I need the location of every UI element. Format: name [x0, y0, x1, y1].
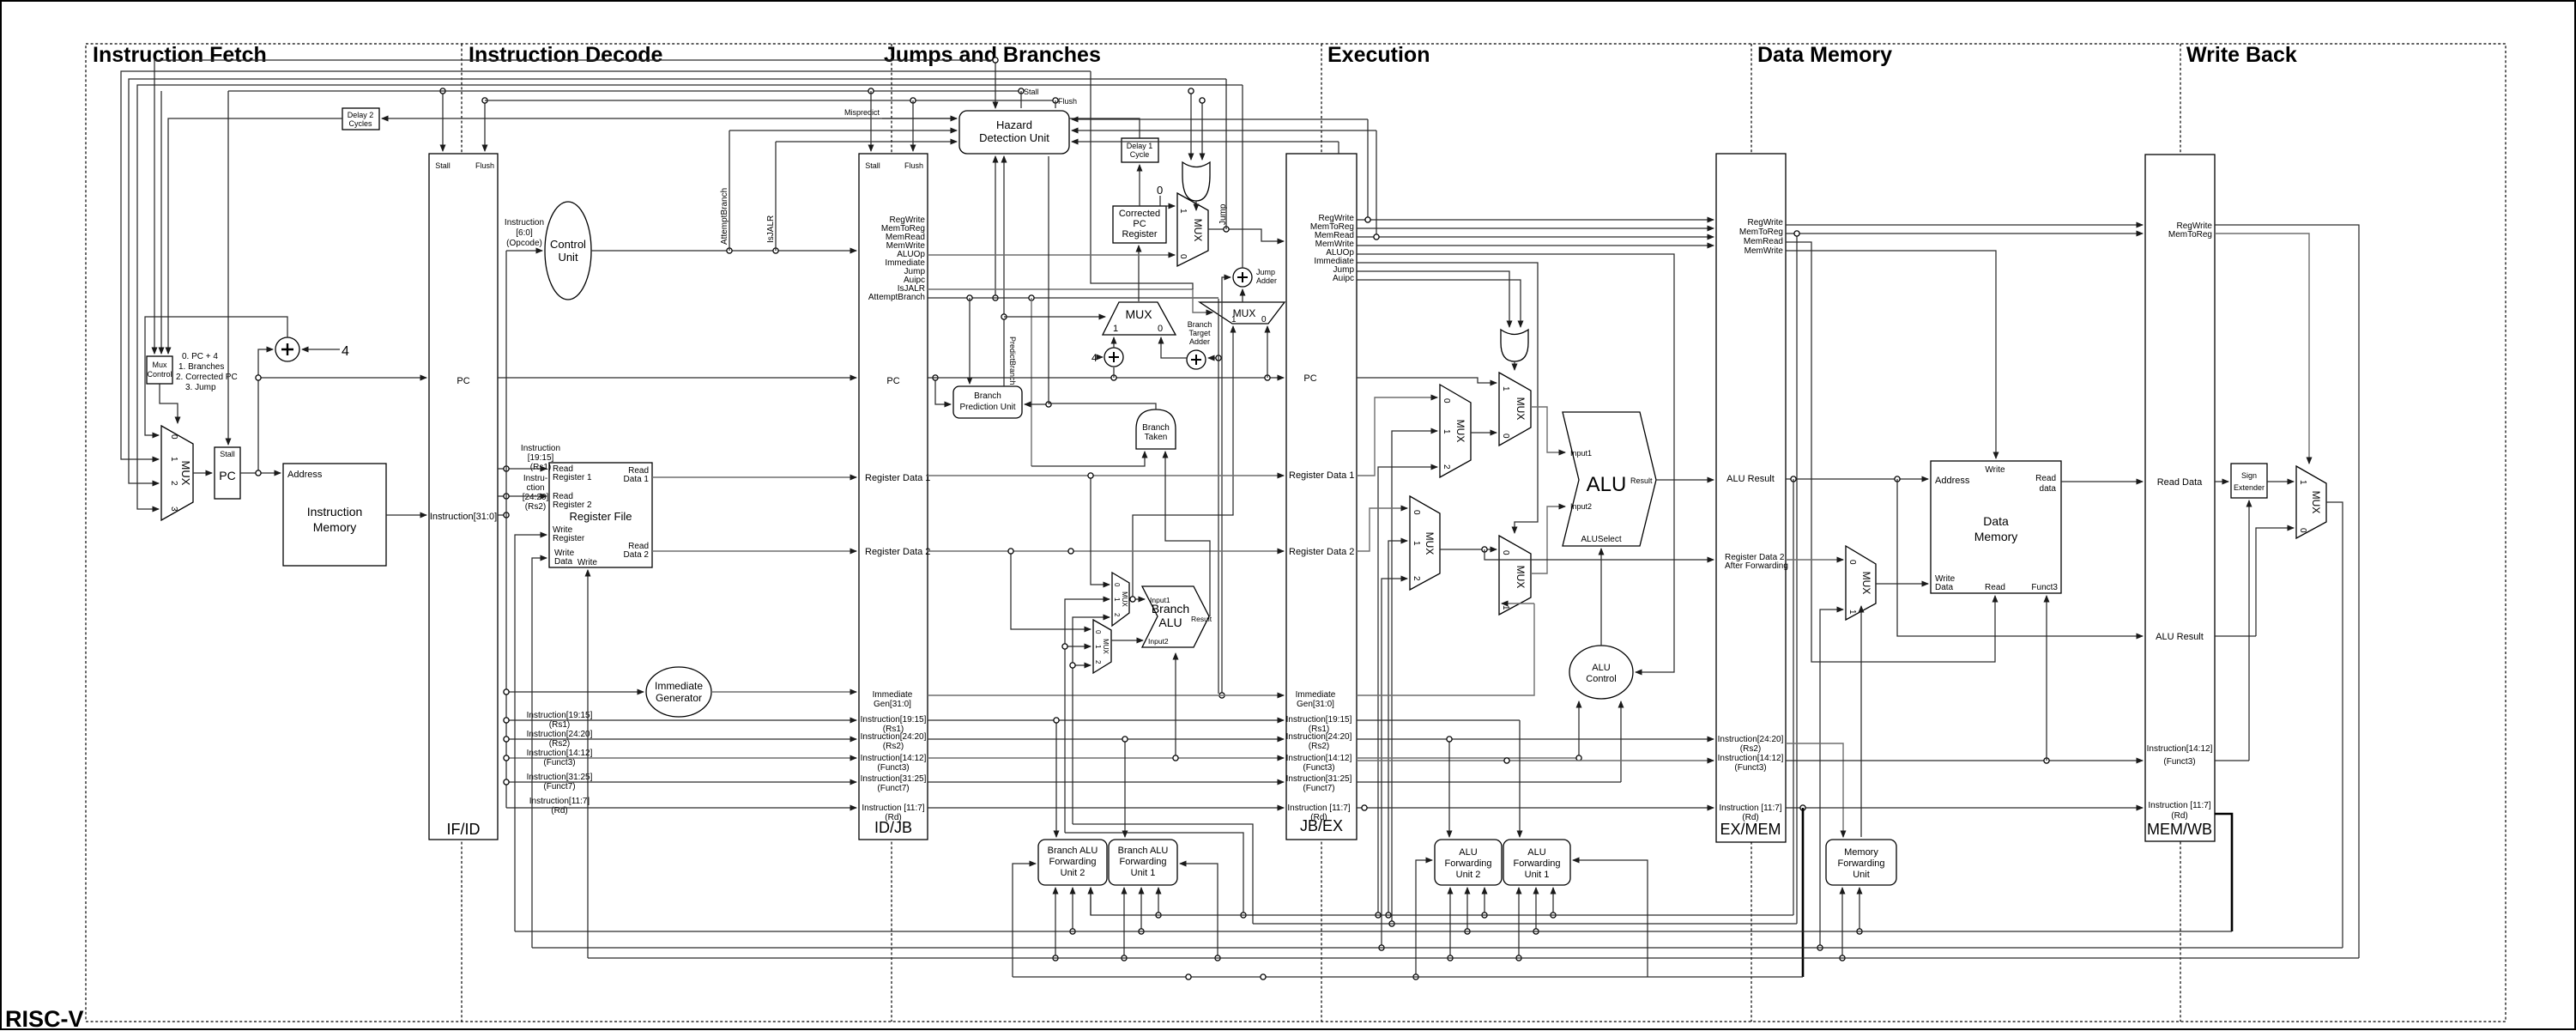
svg-text:Control: Control: [1586, 674, 1616, 684]
delay 2 cycles box: [342, 108, 379, 130]
wire regdata2 to mux M9 input0: [1357, 508, 1407, 551]
wire funct3 from EX/MEM to MEM/WB and data memory: [1786, 760, 2143, 761]
svg-text:Input1: Input1: [1570, 449, 1592, 458]
wire mux M8 input1 from bus: [1392, 431, 1437, 924]
section divider Execution: [1321, 44, 1322, 1022]
wire M5 input2 from forwarding: [1073, 617, 1110, 824]
mux control MC1: [147, 356, 172, 384]
svg-text:Instruction Decode: Instruction Decode: [469, 43, 663, 67]
svg-text:0: 0: [1442, 398, 1451, 403]
branch alu forwarding unit 1: [1109, 840, 1177, 885]
wire jump mux to jump adder: [1242, 289, 1243, 302]
svg-text:ction: ction: [526, 483, 544, 493]
svg-text:Forwarding: Forwarding: [1513, 858, 1560, 869]
svg-text:PC: PC: [1133, 219, 1146, 229]
svg-text:Unit 1: Unit 1: [1131, 868, 1156, 878]
svg-text:Stall: Stall: [220, 450, 235, 458]
wire delay2 output to mux control: [168, 118, 342, 354]
svg-text:MUX: MUX: [1192, 219, 1204, 242]
svg-text:Data Memory: Data Memory: [1757, 43, 1892, 67]
wire memtoreg down to mux select: [2215, 233, 2309, 464]
wire instruction31:0 node: [498, 514, 506, 516]
adder PC+4: [275, 337, 349, 361]
wire isjalr row from ID/JB to jump mux select: [928, 289, 1212, 312]
wire ID/JB PC to JB/EX PC: [928, 377, 1284, 379]
svg-text:0: 0: [1501, 434, 1510, 439]
svg-text:Instruction[19:15]: Instruction[19:15]: [1286, 715, 1352, 725]
wire branches y83 to mux input1: [121, 71, 1091, 459]
svg-text:Instruction [11:7]: Instruction [11:7]: [862, 804, 924, 813]
wire alu fwd unit selects: [1448, 739, 1450, 837]
svg-text:Instruction[11:7]: Instruction[11:7]: [529, 797, 590, 806]
svg-text:Instruction[14:12]: Instruction[14:12]: [527, 749, 593, 758]
svg-text:Read: Read: [2035, 474, 2056, 483]
svg-text:4: 4: [342, 344, 349, 359]
svg-text:ALU: ALU: [1527, 847, 1545, 858]
svg-text:Detection Unit: Detection Unit: [979, 131, 1049, 144]
wire delay1 to mispredict: [1069, 118, 1140, 138]
svg-text:0: 0: [1261, 315, 1267, 324]
wire regwrite into register file bottom: [587, 570, 589, 958]
wire rs1 data tap to branch mux M5 input0: [1091, 476, 1110, 585]
svg-text:Unit 2: Unit 2: [1061, 868, 1085, 878]
svg-text:AttemptBranch: AttemptBranch: [868, 293, 925, 302]
wire ID/JB regdata2 to JB/EX: [928, 550, 1284, 552]
svg-text:Data 2: Data 2: [624, 550, 650, 560]
svg-text:Register Data 1: Register Data 1: [1289, 470, 1354, 481]
wire flush into ID/JB: [912, 100, 914, 151]
wire branch target adder input from rs1 bus: [1208, 357, 1218, 359]
svg-text:Mux: Mux: [152, 361, 167, 369]
svg-text:PC: PC: [219, 469, 235, 482]
wire register file read data1 to ID/JB: [652, 476, 856, 478]
wire alu fwd unit2 left input: [1416, 860, 1432, 977]
svg-text:2: 2: [1094, 660, 1102, 664]
sign extender: [2231, 464, 2267, 498]
mux M2 corrected pc: [1177, 193, 1208, 266]
svg-text:Delay 1: Delay 1: [1127, 142, 1153, 150]
svg-text:(Funct3): (Funct3): [1734, 763, 1766, 773]
svg-text:Unit: Unit: [1853, 870, 1870, 880]
svg-text:0: 0: [169, 434, 178, 440]
wire read data to MEM/WB: [2061, 481, 2143, 482]
svg-text:3. Jump: 3. Jump: [185, 383, 216, 392]
wire pc to +4 adder: [1113, 367, 1115, 378]
wire imm gen output to ID/JB: [711, 691, 856, 693]
wire mux M8 input2 from bus: [1378, 467, 1437, 915]
delay 1 cycle box: [1122, 138, 1158, 162]
wire mux M9 out to mux M10 input0: [1440, 549, 1497, 550]
svg-text:(Rd): (Rd): [1742, 813, 1758, 822]
svg-text:Unit 1: Unit 1: [1525, 870, 1550, 880]
wire control rows JB/EX to EX/MEM: [1357, 219, 1714, 221]
svg-text:MUX: MUX: [1424, 532, 1436, 555]
svg-text:Cycle: Cycle: [1130, 150, 1150, 159]
mux control legend text: [176, 352, 238, 392]
wire mux M9 out to EX/MEM regdata2 after fwd: [1485, 549, 1714, 560]
wire top line y70 to mux control: [154, 60, 995, 354]
svg-text:Stall: Stall: [865, 161, 880, 170]
svg-text:data: data: [2040, 484, 2057, 494]
svg-text:Branch: Branch: [974, 391, 1001, 401]
svg-text:MemRead: MemRead: [1744, 237, 1783, 246]
svg-text:1: 1: [1094, 645, 1102, 649]
section divider Decode: [461, 44, 463, 1022]
wire M6 input1: [1065, 646, 1091, 647]
svg-text:Branch: Branch: [1188, 320, 1212, 329]
wire PC+4 loop top: [145, 317, 287, 435]
svg-text:Register Data 2: Register Data 2: [865, 547, 930, 557]
wire mux M2 output jump node: [1208, 229, 1284, 241]
wire write register from bottom bus: [515, 535, 547, 931]
svg-text:(Rs2): (Rs2): [1740, 744, 1761, 754]
wire mux M8 out to mux M7 input0: [1471, 432, 1497, 434]
svg-text:Stall: Stall: [435, 161, 450, 170]
svg-text:(Rd): (Rd): [2171, 811, 2187, 821]
wire alu result branch down to MEM/WB alu result: [1897, 479, 2143, 636]
wire stall line: [228, 90, 1021, 92]
svg-text:Branch ALU: Branch ALU: [1118, 846, 1169, 856]
svg-text:Delay 2: Delay 2: [348, 111, 374, 119]
svg-text:1: 1: [1412, 541, 1421, 546]
wire Auipc to or gate: [1357, 280, 1521, 327]
svg-text:Input2: Input2: [1570, 502, 1592, 511]
wire alu fwd unit1 right input: [1573, 860, 1648, 977]
section divider Jumps: [891, 44, 892, 1022]
mux M6 branch alu input2: [1093, 620, 1111, 673]
svg-text:Instruction Fetch: Instruction Fetch: [93, 43, 267, 67]
wire M5 input1 from forwarding: [1065, 599, 1110, 833]
wire branch taken feedback to bpu right: [1025, 403, 1049, 405]
wire mux M11 out to write data: [1876, 583, 1928, 585]
svg-text:Prediction Unit: Prediction Unit: [959, 403, 1015, 412]
section divider Data Memory: [1751, 44, 1752, 1022]
wire M6 input2: [1073, 664, 1091, 666]
wire memread to data memory read: [1786, 242, 1995, 662]
wire alu fwd unit1 bottom inputs: [1518, 888, 1520, 958]
wire wb data to mux M11 input1: [1820, 610, 1843, 948]
bus wb regwrite y1116: [588, 957, 2359, 959]
wire jump vertical up to y92: [1225, 79, 1227, 229]
wire mux M9 input2 from bus: [1382, 579, 1407, 948]
svg-text:Forwarding: Forwarding: [1049, 857, 1096, 867]
wire ID/JB rs2 to JB/EX: [928, 738, 1284, 740]
svg-text:Forwarding: Forwarding: [1837, 858, 1884, 869]
wire corrected pc register to delay1: [1139, 165, 1140, 206]
svg-text:Register 2: Register 2: [553, 500, 592, 510]
svg-text:Register File: Register File: [570, 510, 632, 523]
svg-text:Instruction [11:7]: Instruction [11:7]: [1287, 804, 1350, 813]
wire constant 0 to mux M2 input1: [1160, 196, 1175, 206]
svg-text:Instru-: Instru-: [523, 474, 547, 483]
wire flush line: [485, 100, 1055, 101]
svg-text:1: 1: [2298, 480, 2307, 485]
bus exmem rd y1138: [1013, 976, 1803, 978]
svg-text:ALU: ALU: [1587, 473, 1627, 496]
wire funct7 row: [506, 781, 856, 783]
svg-text:RISC-V: RISC-V: [5, 1006, 84, 1031]
svg-text:Result: Result: [1191, 615, 1212, 623]
svg-text:Generator: Generator: [656, 692, 702, 704]
svg-text:Jump: Jump: [1256, 268, 1275, 276]
wire flush into IF/ID: [484, 100, 486, 151]
wire rs2 row: [506, 738, 856, 740]
svg-text:Auipc: Auipc: [1333, 274, 1354, 283]
wire 4 into adder: [302, 349, 340, 350]
svg-text:(Opcode): (Opcode): [506, 239, 542, 248]
wire alu result to address: [1786, 478, 1928, 480]
svg-text:Control: Control: [147, 370, 172, 379]
svg-text:1: 1: [1178, 209, 1188, 214]
wire attemptbranch drop to branch taken: [1031, 298, 1032, 466]
svg-text:Mispredict: Mispredict: [844, 108, 880, 117]
alu forwarding unit 1: [1503, 840, 1570, 885]
alu control: [1569, 646, 1633, 699]
wire memory fwd unit bottom inputs: [1841, 888, 1843, 958]
wire stall to PC reg: [227, 91, 229, 445]
svg-text:MUX: MUX: [1515, 566, 1527, 589]
wire rd row: [506, 807, 856, 809]
svg-text:Instruction[14:12]: Instruction[14:12]: [1718, 754, 1784, 763]
svg-text:IsJALR: IsJALR: [766, 215, 776, 243]
svg-text:0: 0: [1501, 550, 1510, 555]
wire M5 output to branch alu input1: [1129, 598, 1145, 600]
wire rd down to bus thick: [1802, 808, 1805, 977]
svg-text:Register: Register: [1122, 229, 1158, 240]
wire stall line into mux control: [160, 91, 162, 354]
svg-text:1: 1: [1501, 605, 1510, 610]
svg-text:(Rd): (Rd): [885, 813, 901, 822]
svg-text:Unit 2: Unit 2: [1456, 870, 1481, 880]
svg-text:Address: Address: [1935, 476, 1970, 486]
svg-text:Instruction [11:7]: Instruction [11:7]: [2148, 801, 2210, 810]
svg-text:(Rs2): (Rs2): [525, 502, 546, 512]
wire control unit output to ID/JB: [591, 250, 856, 252]
alu forwarding unit 2: [1435, 840, 1502, 885]
wire attemptbranch to HDU: [729, 130, 957, 131]
svg-text:Unit: Unit: [558, 251, 578, 264]
svg-text:MEM/WB: MEM/WB: [2147, 821, 2212, 838]
wire rs1 rs2 rd rows to EX/MEM: [1357, 719, 1520, 721]
wire ID/JB immgen to JB/EX: [928, 694, 1284, 696]
wire mux M3 output to corrected pc register: [1138, 246, 1140, 301]
svg-text:0: 0: [1847, 560, 1857, 565]
svg-text:Data: Data: [1935, 583, 1954, 592]
wire PC to mux M7 input1: [1357, 378, 1497, 383]
branch target adder: [1187, 320, 1212, 369]
mux M10 alu input2 select: [1499, 536, 1531, 615]
wire isjalr up: [775, 142, 777, 251]
svg-text:Forwarding: Forwarding: [1444, 858, 1491, 869]
svg-text:PC: PC: [1303, 373, 1316, 384]
bus wb data y1104: [532, 947, 2343, 949]
wire alu result to mux input0: [2215, 635, 2256, 637]
svg-text:Immediate: Immediate: [1296, 690, 1336, 700]
wire rs1 row down to branch fwd unit2: [1055, 720, 1057, 837]
wire funct7 to alu control: [1357, 781, 1621, 783]
svg-text:0: 0: [1412, 510, 1421, 515]
svg-text:MUX: MUX: [1102, 639, 1110, 654]
wire ALUOp row to mux M2 input0: [928, 254, 1175, 256]
opcode label: [505, 218, 544, 248]
svg-text:0: 0: [1157, 184, 1163, 197]
wire or gate to mux M2 select: [1195, 201, 1197, 210]
wire imm gen input: [506, 691, 644, 693]
svg-text:1: 1: [1231, 315, 1237, 324]
wire alu fwd unit2 bottom inputs: [1449, 888, 1451, 958]
svg-text:MemToReg: MemToReg: [1739, 227, 1783, 237]
svg-text:0: 0: [1178, 254, 1188, 259]
or gate jump/auipc: [1501, 330, 1528, 361]
svg-text:MUX: MUX: [1121, 591, 1128, 607]
svg-text:Memory: Memory: [1844, 847, 1878, 858]
wire register file read data2 to ID/JB: [652, 550, 856, 552]
mux M1 (next PC select): [161, 426, 193, 520]
svg-text:2: 2: [169, 481, 178, 486]
svg-text:Read: Read: [1985, 583, 2005, 592]
svg-text:0: 0: [1113, 583, 1121, 587]
wire attemptbranch row from ID/JB: [928, 297, 1218, 299]
svg-text:Instruction: Instruction: [307, 505, 363, 519]
wire ID/JB rs1 to JB/EX: [928, 719, 1284, 721]
wire regdata2 after fwd to mux M11 input0: [1786, 559, 1843, 561]
wire bpu top from attemptbranch: [969, 298, 971, 384]
svg-text:Instruction: Instruction: [521, 444, 560, 453]
svg-text:(Rd): (Rd): [1310, 813, 1327, 822]
jump adder: [1233, 268, 1277, 287]
svg-text:[24:20]: [24:20]: [523, 493, 549, 502]
svg-text:Instruction[19:15]: Instruction[19:15]: [861, 715, 927, 725]
wire alu control to ALU select: [1600, 549, 1602, 646]
svg-text:Data: Data: [554, 557, 573, 567]
immediate generator: [646, 667, 711, 717]
wire M6 output to branch alu input2: [1111, 640, 1143, 641]
wire PC to instruction memory address: [240, 472, 281, 474]
svg-text:Immediate: Immediate: [655, 680, 703, 692]
svg-text:Instruction[24:20]: Instruction[24:20]: [527, 730, 593, 739]
junction PC node: [256, 470, 261, 476]
register file: [549, 463, 652, 567]
svg-text:4: 4: [1091, 352, 1098, 364]
svg-text:Instruction[31:0]: Instruction[31:0]: [430, 512, 497, 522]
wire rs2 row down to branch fwd unit1: [1124, 739, 1126, 837]
svg-text:Register Data 1: Register Data 1: [865, 473, 930, 483]
svg-text:Instruction[24:20]: Instruction[24:20]: [861, 732, 927, 742]
svg-text:Flush: Flush: [1058, 97, 1077, 106]
svg-text:1: 1: [1442, 429, 1451, 434]
svg-text:3: 3: [169, 506, 178, 512]
svg-text:[19:15]: [19:15]: [528, 453, 554, 463]
svg-text:(Funct3): (Funct3): [1303, 763, 1334, 773]
wire ID/JB regdata1 to JB/EX: [928, 475, 1284, 476]
svg-text:Instruction: Instruction: [505, 218, 544, 227]
wire rd out down thick: [2215, 814, 2232, 931]
mux M4 jump adder input: [1200, 302, 1285, 324]
wire corrected pc y92 to mux input2: [129, 79, 1226, 483]
svg-text:IF/ID: IF/ID: [447, 821, 481, 838]
wire immgen data to mux M10 input1: [1357, 603, 1534, 695]
svg-text:Branch ALU: Branch ALU: [1048, 846, 1098, 856]
branch taken gate: [1136, 409, 1176, 449]
svg-text:2: 2: [1113, 613, 1121, 617]
svg-text:1: 1: [1847, 610, 1857, 615]
vertical instruction bus: [505, 251, 507, 808]
svg-text:ALUSelect: ALUSelect: [1581, 535, 1621, 544]
wire ALUOp to alu control: [1357, 254, 1674, 672]
wire rs1 row: [506, 719, 856, 721]
wire branch taken output: [1049, 156, 1156, 409]
wire pc tap to bpu: [935, 378, 951, 404]
wire mux M1 out to PC: [193, 472, 212, 474]
wire mux control to mux select: [160, 384, 178, 423]
svg-text:Target: Target: [1188, 329, 1211, 337]
section divider Write Back: [2180, 44, 2181, 1022]
svg-text:Input2: Input2: [1148, 637, 1169, 646]
wire branch taken inputs: [1031, 452, 1145, 466]
svg-text:Result: Result: [1630, 476, 1653, 485]
wire branch fwd unit2 bottom inputs: [1055, 888, 1056, 958]
svg-text:0: 0: [1094, 630, 1102, 634]
wire Jump to or gate: [1357, 271, 1509, 327]
svg-text:Instruction [11:7]: Instruction [11:7]: [1719, 804, 1781, 813]
svg-text:Instruction[31:25]: Instruction[31:25]: [861, 774, 927, 784]
wire rs2 from EX/MEM to memory fwd unit: [1786, 743, 1843, 837]
svg-text:(Funct7): (Funct7): [877, 784, 909, 793]
svg-text:ALU: ALU: [1459, 847, 1477, 858]
wire ALU result to EX/MEM: [1656, 479, 1714, 481]
svg-text:MUX: MUX: [1125, 307, 1152, 321]
wire PC up to adder: [258, 349, 273, 378]
wire jump adder output up to y99: [1242, 85, 1243, 268]
wire stall into ID/JB: [870, 91, 872, 151]
wire HDU bottom input predictbranch: [1003, 156, 1005, 386]
svg-text:(Rs2): (Rs2): [1309, 742, 1329, 751]
wire branch fwd unit2 left input: [1013, 864, 1036, 977]
wire PC value up and to IF/ID PC: [258, 378, 426, 473]
branch alu forwarding unit 2: [1038, 840, 1107, 885]
svg-text:MUX: MUX: [179, 461, 192, 486]
wire auipc branch from top: [1091, 71, 1193, 289]
wire ID/JB funct3 to JB/EX: [928, 757, 1284, 759]
svg-text:Funct3: Funct3: [2031, 583, 2058, 592]
svg-text:Data 1: Data 1: [624, 475, 650, 484]
wire branch fwd unit1 bottom inputs: [1123, 888, 1125, 958]
svg-text:Immediate: Immediate: [873, 690, 913, 700]
svg-text:Flush: Flush: [475, 161, 494, 170]
svg-text:Flush: Flush: [904, 161, 923, 170]
wire stall into IF/ID: [442, 91, 444, 151]
svg-text:0: 0: [2298, 528, 2307, 533]
wire sign extender to mux input1: [2267, 481, 2294, 482]
svg-text:Instruction[24:20]: Instruction[24:20]: [1286, 732, 1352, 742]
svg-text:1: 1: [1113, 597, 1121, 602]
wire read data to sign extender: [2215, 481, 2228, 482]
wire funct3 to alu control: [1357, 757, 1579, 759]
svg-text:Sign: Sign: [2241, 471, 2257, 480]
svg-text:AttemptBranch: AttemptBranch: [720, 188, 729, 245]
svg-text:Instruction[31:25]: Instruction[31:25]: [1286, 774, 1352, 784]
svg-text:[6:0]: [6:0]: [516, 228, 533, 238]
wire mux M7 out to ALU input1: [1531, 407, 1565, 452]
wire memory fwd unit select up to mux M11: [1860, 606, 1862, 837]
mux M8 forward A: [1440, 385, 1471, 477]
wire mux M9 input1 from bus: [1388, 541, 1407, 915]
svg-text:Memory: Memory: [313, 520, 357, 534]
svg-text:PC: PC: [886, 376, 899, 386]
svg-text:Register 1: Register 1: [553, 473, 592, 482]
svg-text:0. PC + 4: 0. PC + 4: [182, 352, 218, 361]
svg-text:1: 1: [169, 457, 178, 462]
